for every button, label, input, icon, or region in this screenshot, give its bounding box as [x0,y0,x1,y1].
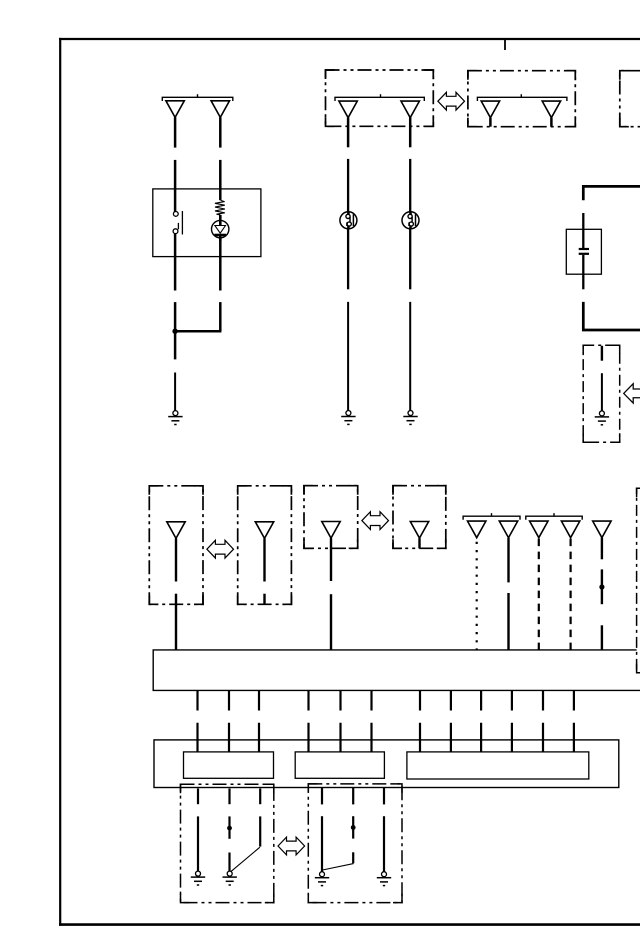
junction [599,584,604,589]
connector pin triangle [561,521,579,538]
wire [174,160,177,212]
inline connector [402,212,419,229]
wire [383,788,385,805]
connector bracket [526,513,582,520]
connector pin triangle [211,101,229,118]
wire [383,816,385,871]
wire [175,330,221,333]
connector bracket [477,94,567,101]
wire [409,118,412,148]
top border tick [504,39,506,50]
connector block A [184,752,274,778]
harness connector box (dash-dot) [468,71,575,127]
wire [263,538,265,581]
connector pin triangle [468,521,486,538]
resistor [215,200,225,215]
LED [212,215,229,241]
pin wire [450,690,452,752]
wire [489,118,492,127]
ground [168,411,182,425]
wire [601,373,603,411]
wire [219,117,222,147]
harness connector box (partial right) [620,71,640,127]
harness box 3 (dash-dot) [304,486,358,549]
wire [507,538,509,583]
wire [347,229,349,290]
wire [228,816,230,838]
ground [223,871,237,885]
ground [191,871,205,885]
wire (dashed) [538,539,540,650]
harness box (dash-dot) [583,345,620,442]
wire [582,213,584,229]
wire [219,302,222,331]
switch blade [323,864,354,870]
wire [174,373,176,411]
wire [219,160,222,200]
harness box 1 (dash-dot) [149,486,203,605]
wire [409,159,411,212]
pin wire [339,690,341,752]
connector bracket [162,94,233,101]
wire [219,238,222,291]
harness box 4 (dash-dot) [393,486,446,549]
ground [341,411,355,425]
wire [582,229,584,248]
connector pin triangle [401,101,419,118]
junction [351,825,356,830]
connector pin triangle [593,521,611,538]
wire [174,302,177,332]
wire [601,346,603,361]
harness box left (dash-dot) [181,784,274,902]
wire [601,538,603,560]
harness box right (dash-dot) [308,784,402,903]
connector pin triangle [410,522,428,539]
harness box (partial right, dash-dot) [637,488,640,673]
pin wires [198,690,574,752]
inline connector [340,212,357,229]
connector block C [407,752,589,779]
wire [347,302,349,411]
wire [409,302,411,411]
junction [172,329,177,334]
wire [259,789,261,805]
wire [330,538,332,581]
connector pin triangle [255,522,273,539]
wire [347,159,349,212]
ground [403,411,417,425]
switch [173,211,182,235]
ground [315,872,329,886]
junction [227,826,232,831]
connector pin triangle [499,521,517,538]
variant arrow [362,512,389,530]
pin wire [258,690,260,752]
wire (dashed) [569,539,571,650]
wire [263,594,265,605]
wire [352,816,354,838]
wire [259,816,261,846]
wire (dotted) [476,542,478,650]
harness box 2 (dash-dot) [238,486,292,605]
connector row outer box [154,740,619,788]
wire [583,302,640,330]
pin wire [370,690,372,752]
connector pin triangle [339,101,357,118]
wire [347,118,350,148]
ground [377,872,391,886]
pin wire [196,690,198,752]
connector pin triangle [322,522,340,539]
connector bracket [463,513,520,520]
wire [228,853,230,872]
wire [174,117,177,147]
bus bar [153,650,640,691]
pin wire [480,690,482,752]
wire [583,186,640,200]
wire [228,789,230,805]
variant arrow (left, partial) [624,384,640,403]
connector block B [295,752,384,778]
wire [507,593,509,650]
pin wire [228,690,230,752]
pin wire [419,690,421,752]
wire [418,538,420,548]
wire [321,816,323,871]
wire [550,118,553,127]
wire [352,788,354,805]
capacitor box [566,229,601,274]
connector pin triangle [542,101,560,118]
connector pin triangle [166,101,184,118]
pin wire [542,690,544,752]
wire [197,816,199,871]
connector pin triangle [167,522,185,539]
wire [601,569,603,604]
pin wire [511,690,513,752]
harness connector box (dash-dot) [326,70,434,126]
variant arrow [207,540,234,558]
connector pin triangle [530,521,548,538]
wire [409,229,411,290]
pin wire [307,690,309,752]
connector bracket [335,94,424,101]
wire [174,331,177,359]
wire [321,788,323,805]
variant arrow [278,837,305,855]
pin wire [573,690,575,752]
wire [175,594,177,650]
switch blade [231,847,260,871]
wire [197,789,199,805]
wire [352,852,354,863]
component box (switch / LED unit) [153,189,261,257]
variant arrow [438,92,465,110]
wire [582,255,584,289]
wire [601,625,603,650]
connector pin triangle [481,101,499,118]
wire [330,594,332,650]
capacitor [579,249,589,254]
wire [175,538,177,581]
wire [174,234,177,291]
ground [595,411,609,425]
